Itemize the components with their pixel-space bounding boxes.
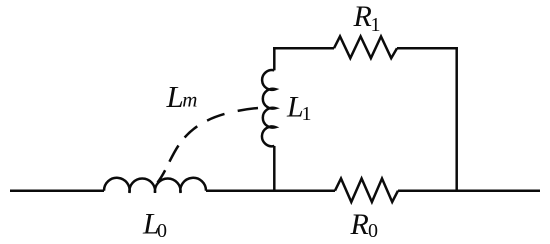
resistor R0 [335,179,398,203]
svg-text:L: L [166,79,184,114]
inductor L0 [104,178,206,193]
wire top-right segment [397,47,458,50]
wire right vertical [455,47,458,191]
svg-text:1: 1 [302,103,312,125]
mutual inductance Lm dashed arc [158,108,259,183]
svg-text:m: m [182,88,197,112]
svg-text:1: 1 [371,14,381,36]
svg-text:0: 0 [157,220,167,242]
inductor L1 [262,70,276,146]
svg-text:0: 0 [368,220,378,242]
wire bottom-right segment [398,189,540,192]
wire top-left segment [273,47,334,50]
svg-text:R: R [350,208,369,241]
wire left branch vertical upper [273,47,276,70]
wire bottom-middle segment [206,189,335,192]
wire left branch vertical (node at bottom wire up to coil) [273,146,276,192]
wire bottom-left segment [10,189,104,192]
svg-text:R: R [353,0,372,33]
resistor R1 [334,36,397,58]
